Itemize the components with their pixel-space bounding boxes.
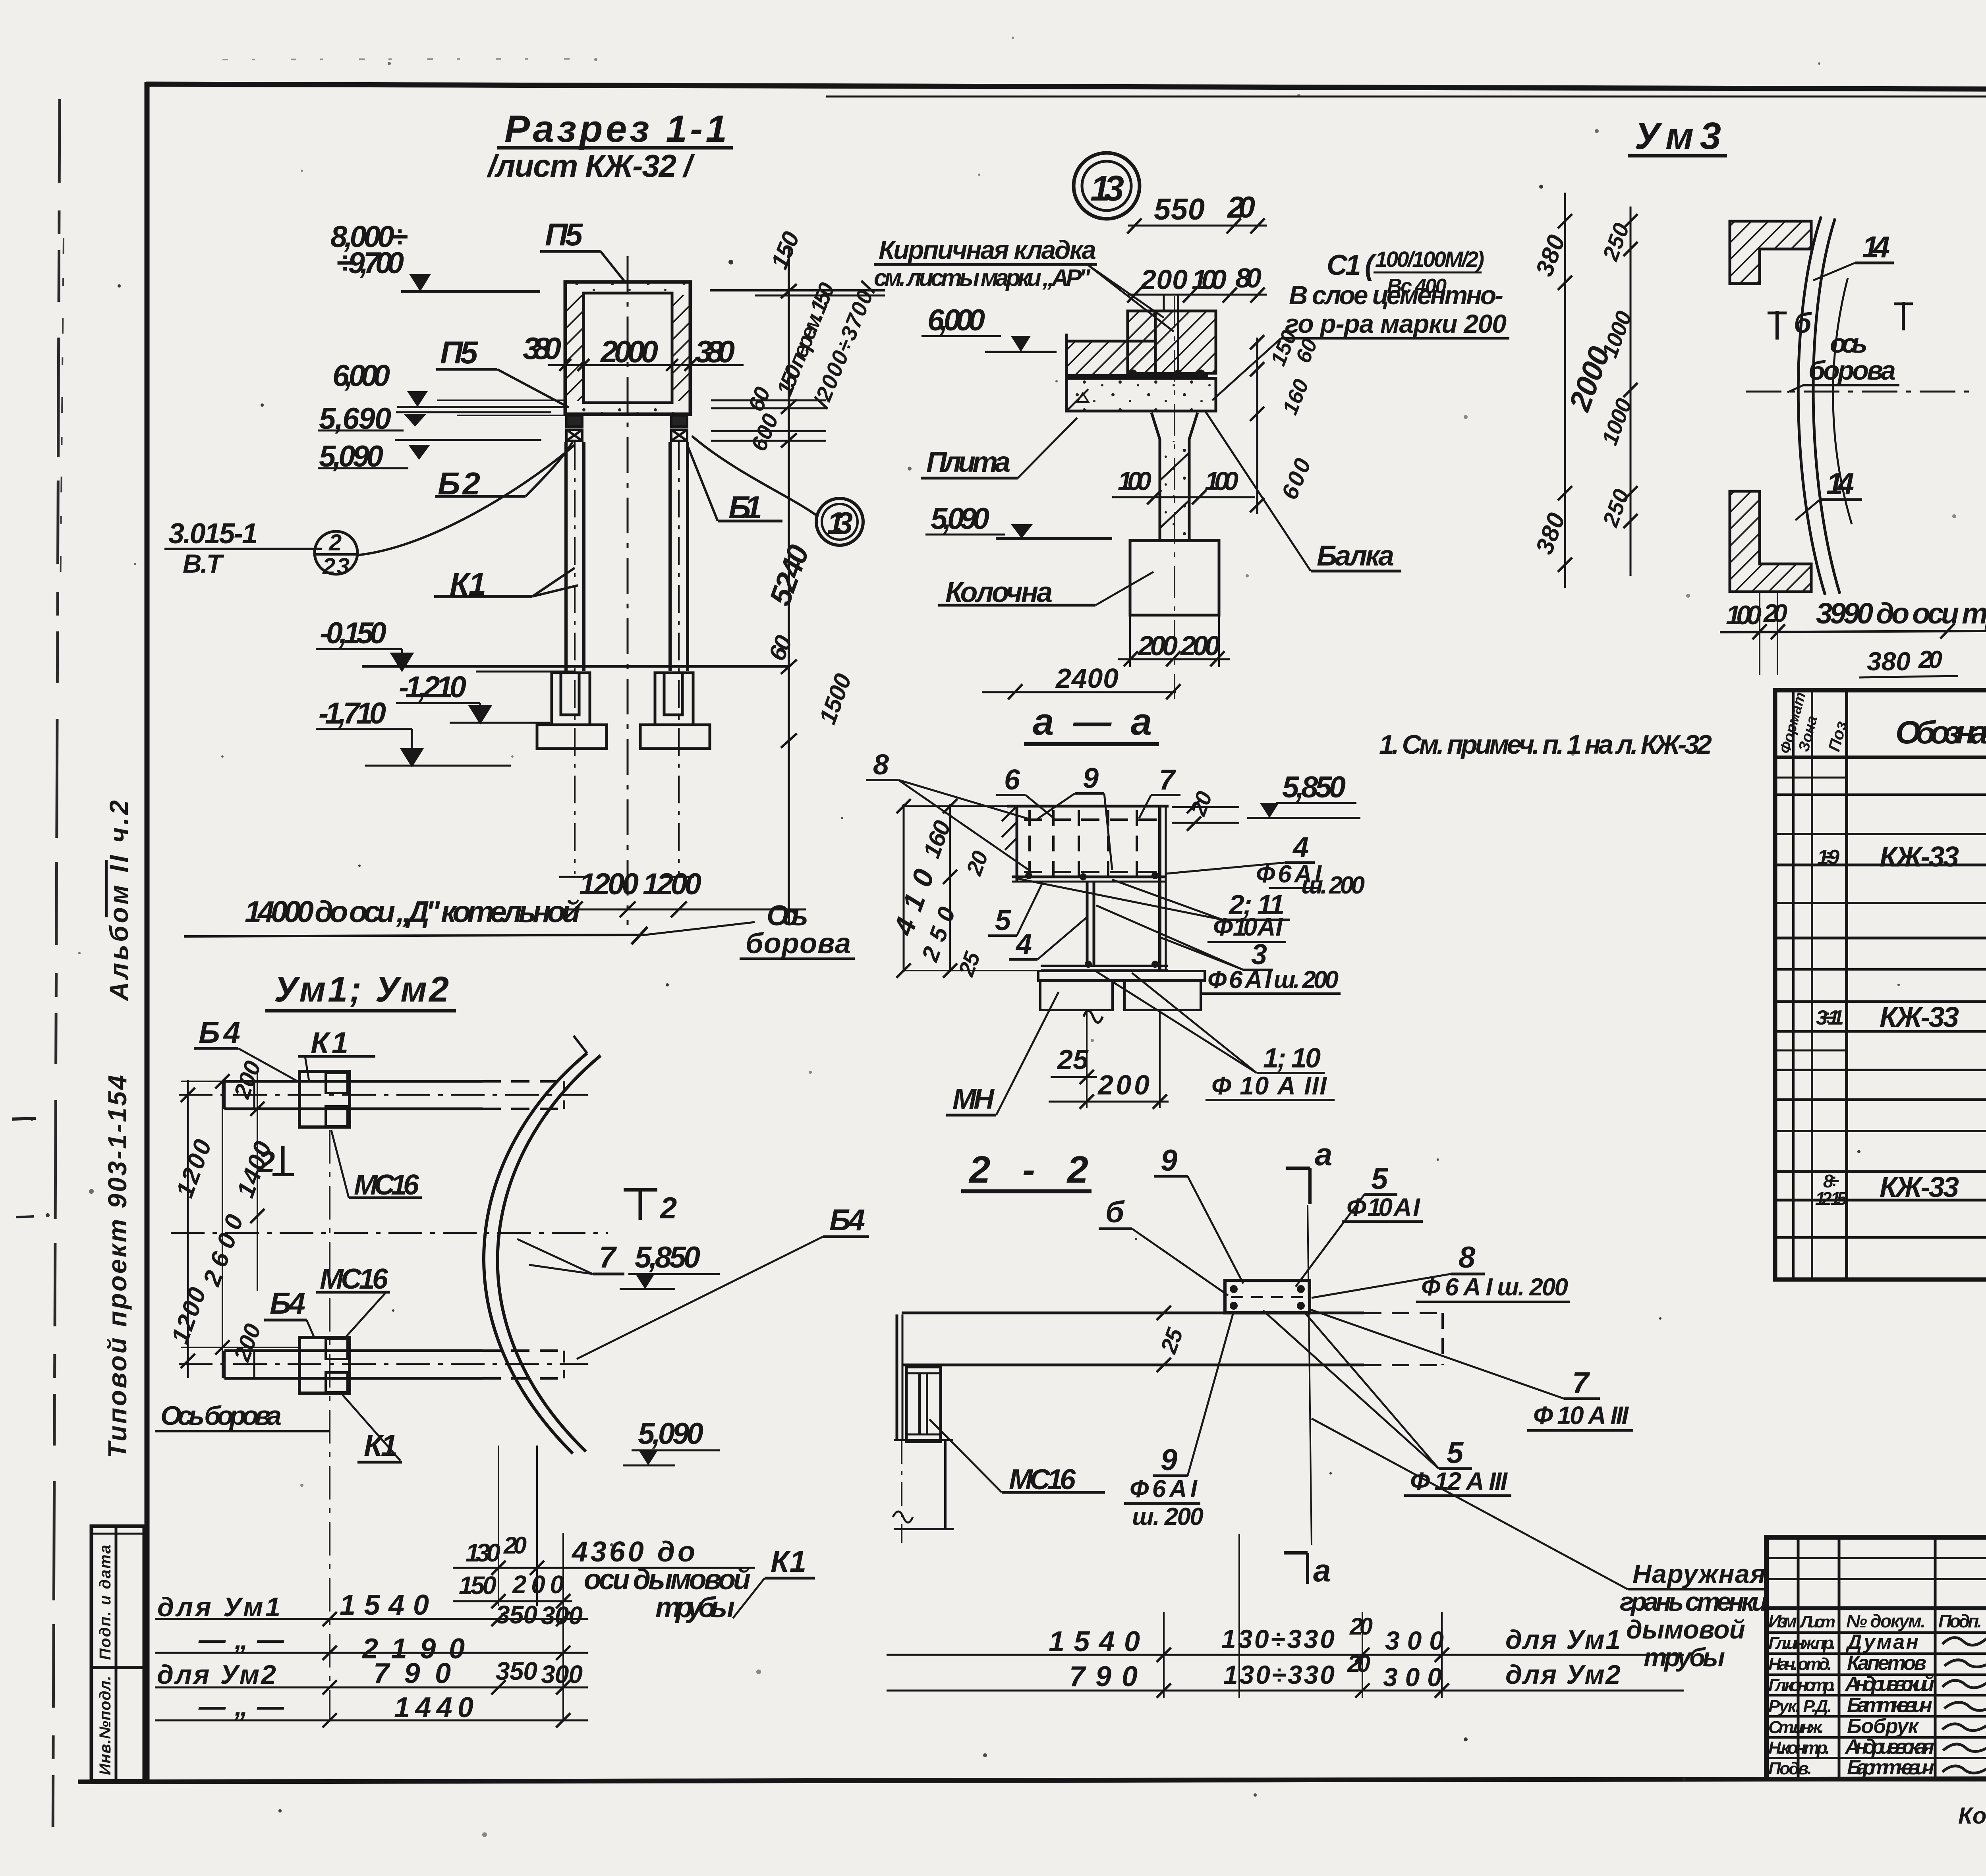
svg-text:3÷11: 3÷11 <box>1816 1006 1844 1029</box>
svg-text:Разрез 1-1: Разрез 1-1 <box>504 108 727 150</box>
svg-text:200: 200 <box>1137 630 1178 661</box>
left stamp strip <box>91 1526 144 1781</box>
svg-text:5,090: 5,090 <box>931 502 989 536</box>
svg-text:Б4: Б4 <box>270 1287 305 1320</box>
svg-text:100: 100 <box>1192 264 1227 295</box>
svg-text:5: 5 <box>1371 1162 1389 1196</box>
Um3 bottom wall bracket <box>1730 491 1811 592</box>
svg-text:25: 25 <box>1057 1044 1089 1075</box>
svg-text:В.Т: В.Т <box>183 549 224 578</box>
svg-text:-1,710: -1,710 <box>319 697 386 730</box>
svg-text:8: 8 <box>1459 1241 1476 1274</box>
dim 380 2000 380 <box>548 364 744 366</box>
a-a base plate and pedestal <box>1038 971 1205 980</box>
svg-text:Ст.инж.: Ст.инж. <box>1768 1718 1824 1737</box>
svg-text:1; 10: 1; 10 <box>1263 1042 1321 1073</box>
svg-text:2 - 2: 2 - 2 <box>968 1148 1088 1191</box>
svg-text:14: 14 <box>1862 230 1890 264</box>
frame left border <box>145 82 150 1782</box>
svg-text:а: а <box>1313 1553 1331 1588</box>
svg-text:Ф 6 А I ш. 200: Ф 6 А I ш. 200 <box>1421 1274 1568 1301</box>
plan K1 block 2 <box>299 1338 350 1393</box>
svg-text:Ф 10 А I: Ф 10 А I <box>1213 913 1283 941</box>
svg-text:100: 100 <box>1205 466 1238 496</box>
svg-text:7: 7 <box>1572 1366 1590 1400</box>
svg-text:Инв.№подл.: Инв.№подл. <box>97 1676 114 1775</box>
Um3 curved flue walls <box>1798 216 1825 595</box>
svg-text:380: 380 <box>1867 647 1911 676</box>
svg-text:200: 200 <box>1097 1069 1149 1100</box>
svg-text:Б4: Б4 <box>829 1203 865 1237</box>
svg-text:МН: МН <box>952 1083 995 1115</box>
svg-text:20: 20 <box>1349 1613 1373 1640</box>
svg-text:-1,210: -1,210 <box>399 670 466 704</box>
svg-text:—„—: —„— <box>198 1691 284 1722</box>
svg-text:К1: К1 <box>771 1545 806 1579</box>
Um3 top wall bracket <box>1730 221 1811 284</box>
svg-text:трубы: трубы <box>655 1592 735 1623</box>
svg-text:для Ум2: для Ум2 <box>1505 1660 1621 1690</box>
svg-text:5,090: 5,090 <box>638 1417 703 1451</box>
svg-text:5,850: 5,850 <box>1282 770 1346 804</box>
svg-text:борова: борова <box>746 928 851 959</box>
a-a corner hatch ticks <box>1002 806 1017 850</box>
svg-text:Ф 6 А I: Ф 6 А I <box>1130 1475 1198 1503</box>
svg-text:КЖ-33: КЖ-33 <box>1880 1002 1959 1033</box>
svg-text:350: 350 <box>496 1600 537 1629</box>
svg-text:80: 80 <box>1235 262 1262 293</box>
svg-text:Изм: Изм <box>1768 1611 1797 1631</box>
svg-text:Колочна: Колочна <box>945 577 1053 608</box>
svg-text:300: 300 <box>1383 1662 1442 1692</box>
plan flue curves <box>484 1053 587 1453</box>
svg-text:9: 9 <box>1161 1443 1177 1477</box>
svg-text:Ф 6 А I ш. 200: Ф 6 А I ш. 200 <box>1207 966 1339 994</box>
svg-text:Ум3: Ум3 <box>1634 115 1721 157</box>
svg-text:200: 200 <box>1180 630 1220 661</box>
svg-text:С1 (: С1 ( <box>1327 249 1377 281</box>
ground line <box>362 665 790 668</box>
left footing <box>537 673 710 749</box>
svg-text:5: 5 <box>1447 1436 1464 1470</box>
cut marker а bottom <box>1284 1551 1308 1555</box>
svg-text:1200: 1200 <box>643 867 701 901</box>
svg-text:Альбом II ч.2: Альбом II ч.2 <box>104 800 133 1002</box>
svg-text:3990 до оси трубы: 3990 до оси трубы <box>1816 597 1986 630</box>
svg-text:200: 200 <box>1140 264 1188 295</box>
svg-text:790: 790 <box>1069 1661 1138 1693</box>
svg-text:Ум1; Ум2: Ум1; Ум2 <box>274 970 449 1009</box>
svg-text:а: а <box>1315 1137 1333 1172</box>
svg-text:для Ум1: для Ум1 <box>1505 1625 1621 1655</box>
svg-text:13: 13 <box>827 506 853 540</box>
svg-text:7: 7 <box>599 1241 617 1274</box>
svg-text:Гл.констр.: Гл.констр. <box>1768 1675 1836 1695</box>
svg-text:Подв.: Подв. <box>1768 1759 1812 1778</box>
node right dim chain <box>1256 338 1258 514</box>
svg-text:Рук. Р.Д.: Рук. Р.Д. <box>1768 1697 1832 1716</box>
svg-text:Ф 10 А I: Ф 10 А I <box>1347 1193 1420 1222</box>
svg-text:Балка: Балка <box>1317 540 1394 572</box>
svg-text:трубы: трубы <box>1644 1642 1725 1672</box>
svg-text:Б4: Б4 <box>199 1016 240 1050</box>
signatures squiggles <box>1942 1635 1986 1773</box>
svg-text:1. См. примеч. п. 1 на л. КЖ-3: 1. См. примеч. п. 1 на л. КЖ-32 <box>1379 730 1712 760</box>
svg-text:130÷330: 130÷330 <box>1223 1660 1335 1689</box>
svg-text:ш. 200: ш. 200 <box>1301 872 1365 899</box>
svg-text:Кирпичная кладка: Кирпичная кладка <box>879 235 1096 264</box>
svg-text:го р-ра марки 200: го р-ра марки 200 <box>1285 309 1507 338</box>
bearing pads <box>566 415 687 441</box>
svg-text:ось: ось <box>1830 328 1868 359</box>
svg-text:7: 7 <box>1159 764 1176 796</box>
svg-text:МС16: МС16 <box>354 1169 419 1201</box>
svg-text:20: 20 <box>503 1532 527 1559</box>
right dim chain line <box>788 246 790 925</box>
a-a I-beam web <box>1086 882 1089 966</box>
svg-text:14000 до оси „Д" котельной: 14000 до оси „Д" котельной <box>245 895 580 929</box>
plan left dim chains <box>187 1080 189 1378</box>
cut marker а top <box>1286 1167 1310 1170</box>
svg-text:Андриевский: Андриевский <box>1844 1673 1934 1696</box>
plan beam 1 <box>224 1080 483 1083</box>
svg-text:20: 20 <box>1347 1650 1370 1677</box>
svg-text:КЖ-33: КЖ-33 <box>1880 841 1959 873</box>
s22 bottom dims <box>1163 1612 1165 1698</box>
section cut marker б <box>1775 311 1779 340</box>
svg-text:200: 200 <box>512 1570 564 1599</box>
node circle 13 <box>816 498 863 545</box>
svg-text:2000: 2000 <box>600 334 658 369</box>
node column <box>1151 413 1198 540</box>
Um3 dim chains <box>1564 193 1566 588</box>
cut marker 2 upper <box>281 1146 285 1175</box>
right column K1 <box>668 442 672 671</box>
svg-text:Лист: Лист <box>1799 1612 1835 1631</box>
chimney walls (hatched) <box>565 282 690 414</box>
node slab (hatched) <box>1066 341 1155 375</box>
node structure: brick wall above slab <box>1066 295 1219 615</box>
mortar joint C1 <box>1066 374 1208 378</box>
plan K1 block 1 <box>299 1071 350 1127</box>
svg-text:Ось борова: Ось борова <box>160 1401 282 1431</box>
svg-text:-0,150: -0,150 <box>320 616 386 650</box>
svg-text:Подп. и дата: Подп. и дата <box>97 1545 114 1660</box>
node 13 detail circle <box>1074 153 1140 219</box>
svg-text:8: 8 <box>873 749 889 781</box>
left column K1 <box>566 442 688 874</box>
specification table <box>1775 690 1986 1280</box>
plan beam 2 <box>224 1349 483 1352</box>
svg-text:Бартткевич: Бартткевич <box>1847 1756 1934 1779</box>
svg-text:6,000: 6,000 <box>927 303 985 337</box>
svg-text:а — а: а — а <box>1033 701 1152 743</box>
svg-text:Думан: Думан <box>1845 1631 1918 1654</box>
leader to node 13 <box>692 436 817 515</box>
svg-text:380: 380 <box>695 334 735 369</box>
plan bottom axis line <box>329 1130 330 1722</box>
svg-text:Подп.: Подп. <box>1938 1611 1982 1631</box>
axis dash-dot <box>1746 391 1970 393</box>
svg-text:Бобрук: Бобрук <box>1847 1715 1920 1738</box>
svg-text:грань стенки: грань стенки <box>1620 1587 1768 1616</box>
svg-text:20: 20 <box>1918 646 1942 674</box>
svg-text:Плита: Плита <box>926 446 1010 478</box>
svg-text:Ф 10 А III: Ф 10 А III <box>1533 1401 1629 1430</box>
svg-text:790: 790 <box>373 1658 451 1689</box>
right footing <box>655 673 693 725</box>
s22 rebar box (a-a cut) <box>1225 1280 1310 1313</box>
node concrete band with speckle <box>1066 378 1216 411</box>
svg-text:9: 9 <box>1161 1144 1177 1177</box>
plan bottom rows <box>155 1618 588 1620</box>
svg-text:4: 4 <box>1015 928 1032 960</box>
svg-text:№ докум.: № докум. <box>1846 1611 1926 1631</box>
svg-text:В слое цементно-: В слое цементно- <box>1289 280 1503 310</box>
svg-text:130÷330: 130÷330 <box>1221 1624 1335 1654</box>
a-a section outline <box>1007 806 1205 1023</box>
a-a rebar dashed <box>1024 818 1164 821</box>
svg-text:÷9,700: ÷9,700 <box>336 246 404 280</box>
svg-text:Н.контр.: Н.контр. <box>1768 1738 1830 1758</box>
svg-text:Наружная: Наружная <box>1632 1559 1766 1588</box>
svg-text:100: 100 <box>1118 466 1151 496</box>
frame bottom border <box>78 1778 1986 1782</box>
a-a left dims <box>903 804 905 972</box>
svg-text:150: 150 <box>459 1571 496 1600</box>
svg-text:6: 6 <box>1004 764 1020 796</box>
node foundation block <box>1130 540 1219 615</box>
svg-text:100: 100 <box>1726 600 1762 630</box>
svg-text:300: 300 <box>541 1660 583 1689</box>
svg-text:6,000: 6,000 <box>332 359 390 393</box>
svg-text:1200: 1200 <box>579 867 639 901</box>
section line a-a <box>1308 1205 1312 1545</box>
svg-text:9: 9 <box>1083 762 1099 794</box>
svg-text:Ось: Ось <box>767 900 808 932</box>
svg-text:14: 14 <box>1826 467 1854 501</box>
svg-text:МС16: МС16 <box>1009 1464 1076 1496</box>
svg-text:ш. 200: ш. 200 <box>1132 1503 1204 1531</box>
svg-text:3: 3 <box>1251 939 1267 971</box>
svg-text:300: 300 <box>541 1601 583 1630</box>
svg-text:—„—: —„— <box>198 1625 284 1655</box>
svg-text:б: б <box>1105 1195 1125 1229</box>
svg-text:Типовой проект 903-1-154: Типовой проект 903-1-154 <box>102 1075 132 1458</box>
s22 left wall and footing <box>893 1314 954 1543</box>
svg-text:Ф 12 А III: Ф 12 А III <box>1410 1467 1508 1496</box>
svg-text:350: 350 <box>496 1657 537 1685</box>
svg-text:борова: борова <box>1808 355 1896 386</box>
svg-text:13: 13 <box>1090 169 1124 208</box>
title block <box>1766 1537 1986 1779</box>
s22 beam <box>902 1312 1364 1314</box>
svg-text:см. листы марки „АР": см. листы марки „АР" <box>874 264 1091 291</box>
svg-text:1÷9: 1÷9 <box>1817 846 1839 869</box>
svg-text:Гл.инж.пр.: Гл.инж.пр. <box>1768 1633 1836 1653</box>
scan left edge artifact <box>53 99 60 1851</box>
svg-text:П5: П5 <box>545 217 583 252</box>
svg-text:Андриевская: Андриевская <box>1844 1735 1934 1758</box>
marker T2 <box>624 1188 657 1192</box>
svg-text:КЖ-33: КЖ-33 <box>1880 1172 1959 1203</box>
svg-text:550: 550 <box>1154 193 1205 226</box>
svg-text:Капетов: Капетов <box>1847 1652 1926 1675</box>
svg-text:Обозначение: Обозначение <box>1895 714 1986 751</box>
svg-text:130: 130 <box>466 1538 500 1567</box>
svg-text:К1: К1 <box>364 1429 398 1463</box>
svg-text:/лист КЖ-32 /: /лист КЖ-32 / <box>487 148 695 183</box>
svg-text:300: 300 <box>1385 1626 1444 1655</box>
svg-text:Копировал Бралиша: Копировал Бралиша <box>1958 1803 1986 1829</box>
svg-text:20: 20 <box>1763 599 1787 627</box>
svg-text:2: 2 <box>659 1191 677 1225</box>
svg-text:5: 5 <box>995 905 1011 936</box>
svg-text:2400: 2400 <box>1055 663 1119 694</box>
svg-text:Ф 10 А III: Ф 10 А III <box>1211 1071 1327 1100</box>
svg-text:П5: П5 <box>440 335 479 370</box>
second cut marker б <box>1902 302 1905 330</box>
svg-text:100/100М/2): 100/100М/2) <box>1375 247 1484 272</box>
svg-text:5,850: 5,850 <box>635 1241 700 1274</box>
chimney axis <box>627 256 629 925</box>
svg-text:дымовой: дымовой <box>1626 1615 1745 1644</box>
svg-text:Нач. отд.: Нач. отд. <box>1768 1654 1832 1674</box>
svg-text:4: 4 <box>1292 832 1309 863</box>
svg-text:3.015-1: 3.015-1 <box>168 518 258 550</box>
svg-text:Батткевич: Батткевич <box>1847 1694 1932 1717</box>
svg-text:380: 380 <box>523 331 561 366</box>
svg-text:2: 2 <box>328 530 342 556</box>
svg-text:12-15: 12-15 <box>1815 1188 1847 1209</box>
svg-text:б: б <box>1794 307 1812 339</box>
